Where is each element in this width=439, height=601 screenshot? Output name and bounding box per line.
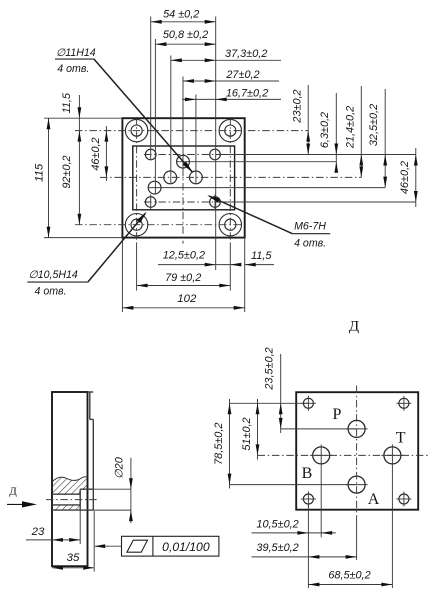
svg-text:6,3±0,2: 6,3±0,2: [319, 112, 331, 148]
svg-text:Д: Д: [9, 486, 17, 498]
svg-text:37,3±0,2: 37,3±0,2: [225, 48, 267, 60]
svg-text:М6-7Н: М6-7Н: [294, 221, 326, 233]
svg-text:54 ±0,2: 54 ±0,2: [163, 9, 199, 21]
svg-text:∅11Н14: ∅11Н14: [56, 47, 96, 59]
svg-text:∅10,5Н14: ∅10,5Н14: [29, 269, 78, 281]
svg-text:11,5: 11,5: [251, 250, 272, 262]
svg-text:78,5±0,2: 78,5±0,2: [213, 423, 225, 465]
svg-text:68,5±0,2: 68,5±0,2: [328, 569, 370, 581]
svg-text:Т: Т: [396, 429, 406, 446]
svg-text:4 отв.: 4 отв.: [294, 238, 326, 250]
svg-text:27±0,2: 27±0,2: [225, 69, 259, 81]
svg-text:Д: Д: [349, 319, 359, 335]
svg-text:46±0,2: 46±0,2: [399, 161, 411, 194]
svg-text:12,5±0,2: 12,5±0,2: [163, 249, 205, 261]
svg-text:0,01/100: 0,01/100: [162, 540, 210, 554]
svg-text:102: 102: [177, 293, 197, 305]
svg-text:23,5±0,2: 23,5±0,2: [263, 347, 275, 390]
svg-text:35: 35: [67, 552, 80, 564]
svg-text:115: 115: [34, 163, 46, 182]
svg-text:39,5±0,2: 39,5±0,2: [256, 542, 298, 554]
svg-text:92±0,2: 92±0,2: [61, 155, 73, 188]
svg-text:В: В: [302, 465, 313, 482]
svg-text:46±0,2: 46±0,2: [90, 137, 102, 170]
svg-text:4 отв.: 4 отв.: [35, 286, 67, 298]
svg-text:23: 23: [31, 526, 45, 538]
svg-text:А: А: [368, 491, 380, 508]
svg-text:32,5±0,2: 32,5±0,2: [368, 104, 380, 146]
svg-text:4 отв.: 4 отв.: [57, 63, 89, 75]
svg-text:51±0,2: 51±0,2: [241, 417, 253, 450]
svg-text:21,4±0,2: 21,4±0,2: [344, 106, 356, 149]
svg-text:79 ±0,2: 79 ±0,2: [165, 272, 201, 284]
svg-text:50,8 ±0,2: 50,8 ±0,2: [163, 29, 208, 41]
svg-text:23±0,2: 23±0,2: [291, 89, 303, 123]
svg-text:16,7±0,2: 16,7±0,2: [226, 87, 268, 99]
svg-text:10,5±0,2: 10,5±0,2: [256, 518, 298, 530]
svg-text:Р: Р: [333, 406, 342, 423]
svg-text:11,5: 11,5: [61, 92, 73, 113]
svg-text:∅20: ∅20: [113, 457, 125, 479]
